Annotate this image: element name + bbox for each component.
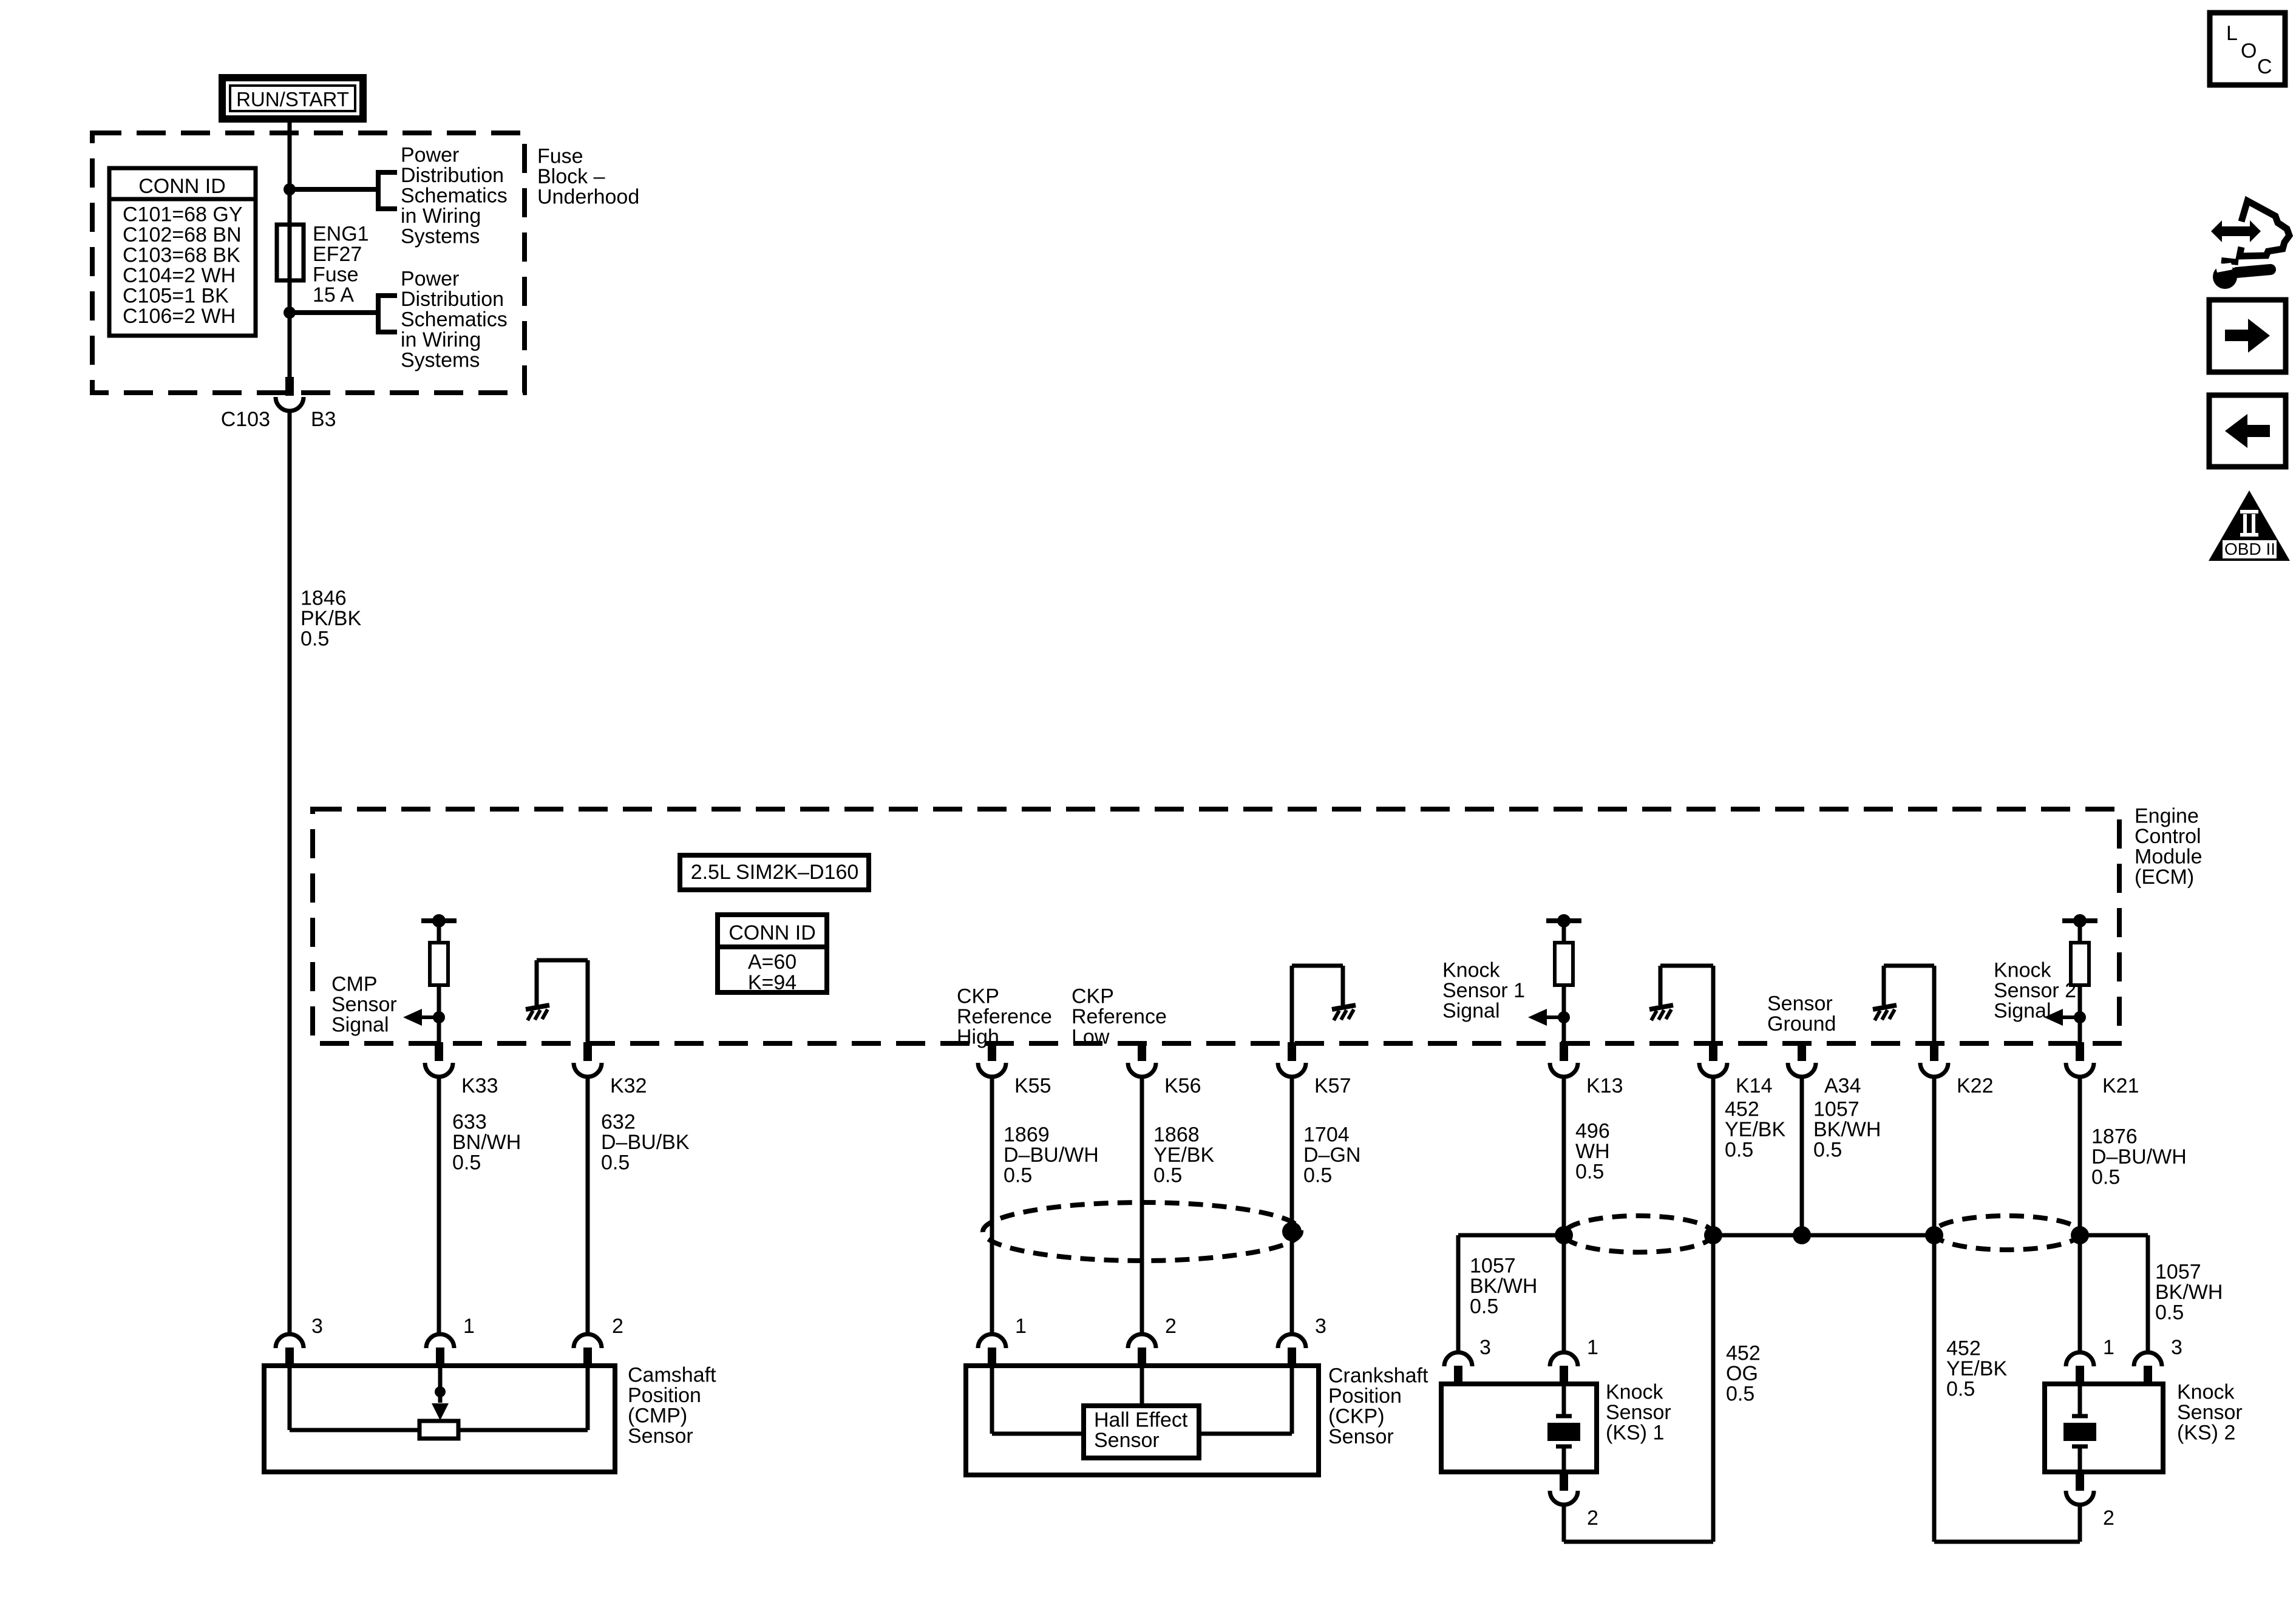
svg-text:Distribution: Distribution: [401, 164, 504, 187]
arrow CMP Sensor Signal: [403, 1009, 439, 1026]
wire 1057 BK/WH 0.5 branch to KS1 pin 3: [1458, 1235, 1564, 1351]
label K21: [2102, 1074, 2139, 1097]
svg-text:Power: Power: [401, 144, 459, 167]
svg-text:0.5: 0.5: [301, 628, 329, 651]
svg-text:K57: K57: [1314, 1074, 1351, 1097]
label pin 2 (CKP): [1165, 1315, 1177, 1338]
label 1057 BK/WH 0.5 (A34): [1813, 1098, 1881, 1162]
svg-text:Sensor: Sensor: [1767, 992, 1833, 1015]
label Fuse Block - Underhood: [537, 145, 639, 209]
ground (ECM internal, K57): [1332, 1005, 1356, 1020]
arrow Knock Sensor 1 Signal: [1528, 1009, 1564, 1026]
wire 452 YE/BK 0.5 (K22 upper): [1932, 1077, 1937, 1235]
svg-text:Sensor 2: Sensor 2: [1994, 979, 2076, 1002]
ground (ECM internal, K14): [1649, 1005, 1673, 1020]
svg-text:Sensor: Sensor: [331, 993, 397, 1016]
resistor pull-up (Knock sensor 1 signal, K13): [1546, 914, 1581, 1017]
icon OBD II triangle: [2209, 490, 2290, 561]
svg-text:EF27: EF27: [313, 243, 362, 266]
label 633 BN/WH 0.5: [452, 1111, 521, 1175]
label pin 1 (KS1): [1587, 1336, 1598, 1359]
svg-text:0.5: 0.5: [1470, 1295, 1498, 1318]
svg-text:(KS) 2: (KS) 2: [2177, 1422, 2235, 1445]
wire 1057 BK/WH 0.5 (A34): [1800, 1077, 1804, 1235]
wire 1869 D-BU/WH 0.5: [990, 1077, 994, 1334]
svg-text:ENG1: ENG1: [313, 223, 369, 246]
svg-text:Signal: Signal: [331, 1014, 389, 1037]
ground (ECM internal, K22): [1873, 1005, 1897, 1020]
label Engine Control Module (ECM): [2135, 805, 2203, 889]
wire K21 internal: [2078, 1017, 2082, 1043]
KS2 box: [2045, 1384, 2163, 1472]
label Knock Sensor (KS) 2: [2177, 1381, 2243, 1445]
label pin 1 (CMP): [463, 1315, 475, 1338]
svg-text:632: 632: [601, 1111, 636, 1134]
label pin 1 (KS2): [2103, 1336, 2114, 1359]
knock element KS2: [2063, 1384, 2096, 1472]
svg-text:C101=68 GY: C101=68 GY: [123, 203, 243, 226]
icon arrow left box: [2209, 395, 2286, 467]
svg-text:C: C: [2257, 55, 2272, 78]
svg-text:0.5: 0.5: [2091, 1166, 2120, 1189]
svg-text:K21: K21: [2102, 1074, 2139, 1097]
label K56: [1164, 1074, 1201, 1097]
label 496 WH 0.5: [1575, 1120, 1610, 1184]
wire K14 internal: [1660, 966, 1713, 1043]
svg-text:1: 1: [1587, 1336, 1598, 1359]
svg-text:0.5: 0.5: [1303, 1164, 1332, 1187]
label 1876 D-BU/WH 0.5: [2091, 1125, 2187, 1189]
pin 1 of KS1: [1550, 1352, 1578, 1385]
pin 2 of KS2: [2066, 1472, 2094, 1505]
svg-text:0.5: 0.5: [1726, 1383, 1754, 1406]
svg-text:Knock: Knock: [2177, 1381, 2235, 1404]
resistor pull-up (CMP sensor signal, K33): [421, 914, 457, 1017]
label pin 3 (KS2): [2171, 1336, 2182, 1359]
label pin 2 (KS1): [1587, 1507, 1598, 1530]
pin 2 of CKP sensor: [1128, 1334, 1156, 1366]
label Knock Sensor 1 Signal: [1442, 959, 1525, 1023]
pin K21: [2066, 1042, 2094, 1077]
svg-text:2: 2: [1165, 1315, 1177, 1338]
pin 3 of KS1: [1444, 1352, 1472, 1385]
svg-text:Fuse: Fuse: [313, 263, 359, 286]
label pin 3 (CMP): [311, 1315, 323, 1338]
wire K32 internal: [537, 960, 588, 1043]
svg-text:CKP: CKP: [957, 985, 999, 1008]
svg-text:Engine: Engine: [2135, 805, 2199, 828]
pin 1 of KS2: [2066, 1352, 2094, 1385]
svg-text:Sensor: Sensor: [1606, 1401, 1671, 1424]
KS1 box: [1441, 1384, 1597, 1472]
label A34: [1824, 1074, 1861, 1097]
svg-text:Sensor: Sensor: [1094, 1429, 1160, 1452]
wire 1846 PK/BK 0.5: [288, 411, 292, 1334]
svg-text:452: 452: [1725, 1098, 1759, 1121]
pin K32: [574, 1042, 602, 1077]
svg-text:A34: A34: [1824, 1074, 1861, 1097]
junction node lower branch: [284, 307, 296, 319]
svg-text:496: 496: [1575, 1120, 1610, 1143]
wire 1057 BK/WH 0.5 branch to KS2 pin 3: [2080, 1235, 2148, 1351]
label 1846 PK/BK 0.5: [301, 587, 361, 651]
svg-text:B3: B3: [311, 408, 336, 431]
svg-text:D–GN: D–GN: [1303, 1144, 1360, 1167]
svg-text:3: 3: [2171, 1336, 2182, 1359]
ECM dashed outline (Engine Control Module): [313, 809, 2119, 1043]
svg-text:0.5: 0.5: [1813, 1139, 1842, 1162]
table CONN ID (fuse block): [109, 168, 256, 336]
svg-text:Sensor 1: Sensor 1: [1442, 979, 1525, 1002]
knock element KS1: [1547, 1384, 1580, 1472]
svg-text:Sensor: Sensor: [628, 1425, 693, 1448]
label RUN/START (ignition voltage): [222, 78, 363, 119]
svg-text:(CKP): (CKP): [1328, 1405, 1385, 1428]
svg-text:Signal: Signal: [1994, 1000, 2051, 1023]
label C103: [221, 408, 270, 431]
pin 1 of CKP sensor: [978, 1334, 1006, 1366]
svg-text:3: 3: [311, 1315, 323, 1338]
fuse block dashed outline (Fuse Block - Underhood): [92, 133, 525, 393]
label B3: [311, 408, 336, 431]
svg-text:Systems: Systems: [401, 349, 480, 372]
pin A34: [1788, 1042, 1816, 1077]
svg-text:WH: WH: [1575, 1140, 1610, 1163]
svg-text:2: 2: [2103, 1507, 2114, 1530]
svg-text:2: 2: [1587, 1507, 1598, 1530]
CMP sensor box: [264, 1366, 615, 1472]
CKP internal wiring: [992, 1366, 1292, 1434]
junction node upper branch: [284, 183, 296, 195]
svg-text:1868: 1868: [1153, 1124, 1200, 1147]
svg-text:Crankshaft: Crankshaft: [1328, 1364, 1428, 1388]
svg-text:15 A: 15 A: [313, 283, 354, 307]
svg-text:0.5: 0.5: [1575, 1161, 1604, 1184]
svg-text:Underhood: Underhood: [537, 186, 639, 209]
svg-text:0.5: 0.5: [601, 1151, 630, 1175]
svg-text:O: O: [2241, 39, 2257, 63]
svg-text:0.5: 0.5: [1004, 1164, 1032, 1187]
label fuse ENG1 EF27 Fuse 15 A: [313, 223, 369, 307]
CKP sensor box: [966, 1366, 1319, 1475]
label Power Distribution Schematics in Wiring Systems (lower): [401, 268, 508, 372]
svg-text:(CMP): (CMP): [628, 1405, 687, 1428]
svg-text:CMP: CMP: [331, 973, 378, 996]
svg-text:Power: Power: [401, 268, 459, 291]
label K57: [1314, 1074, 1351, 1097]
node bus at A34: [1793, 1226, 1811, 1244]
label 2.5L SIM2K-D160: [680, 855, 869, 890]
svg-text:Block –: Block –: [537, 165, 605, 188]
label 1057 BK/WH 0.5 (KS2): [2155, 1261, 2223, 1324]
svg-text:0.5: 0.5: [2155, 1301, 2184, 1324]
svg-text:Sensor: Sensor: [2177, 1401, 2243, 1424]
svg-text:Control: Control: [2135, 825, 2201, 848]
svg-text:C102=68 BN: C102=68 BN: [123, 223, 242, 246]
twisted pair ellipse (knock sensor 1 wires): [1564, 1216, 1713, 1252]
svg-text:0.5: 0.5: [1725, 1139, 1753, 1162]
icon arrow right box: [2209, 300, 2286, 372]
svg-text:PK/BK: PK/BK: [301, 607, 361, 630]
pin K57: [1278, 1042, 1306, 1077]
svg-text:0.5: 0.5: [1946, 1378, 1975, 1401]
svg-text:Knock: Knock: [1994, 959, 2051, 982]
svg-text:Ground: Ground: [1767, 1012, 1836, 1036]
label 452 OG 0.5: [1726, 1342, 1761, 1406]
svg-text:K55: K55: [1014, 1074, 1051, 1097]
svg-text:1: 1: [2103, 1336, 2114, 1359]
label pin 3 (CKP): [1315, 1315, 1326, 1338]
pin K22: [1920, 1042, 1948, 1077]
wire K57 internal: [1292, 966, 1343, 1043]
pin K56: [1128, 1042, 1156, 1077]
pin 3 of KS2: [2134, 1352, 2162, 1385]
svg-text:2.5L SIM2K–D160: 2.5L SIM2K–D160: [691, 861, 859, 884]
wire K22 down to KS2 pin 2 loop: [1934, 1235, 2080, 1542]
svg-text:K14: K14: [1736, 1074, 1773, 1097]
svg-text:D–BU/BK: D–BU/BK: [601, 1131, 690, 1154]
branch symbol 2 (to Power Distribution Schematics): [378, 293, 397, 334]
pin K14: [1699, 1042, 1727, 1077]
svg-text:C103: C103: [221, 408, 270, 431]
label CMP Sensor Signal: [331, 973, 397, 1037]
svg-text:Position: Position: [1328, 1385, 1402, 1408]
label K14: [1736, 1074, 1773, 1097]
svg-text:1876: 1876: [2091, 1125, 2138, 1148]
wire K22 internal: [1884, 966, 1934, 1043]
svg-text:RUN/START: RUN/START: [236, 88, 349, 110]
svg-text:OBD II: OBD II: [2224, 540, 2275, 558]
svg-text:K32: K32: [610, 1074, 647, 1097]
svg-text:1: 1: [463, 1315, 475, 1338]
svg-text:Schematics: Schematics: [401, 308, 508, 331]
svg-text:L: L: [2226, 22, 2238, 45]
svg-text:CONN ID: CONN ID: [138, 175, 226, 198]
svg-text:C104=2 WH: C104=2 WH: [123, 264, 236, 287]
node bus at K13: [1555, 1226, 1573, 1244]
svg-text:K13: K13: [1586, 1074, 1623, 1097]
svg-text:Position: Position: [628, 1384, 701, 1407]
wire branch 1: [290, 187, 378, 192]
label Knock Sensor (KS) 1: [1606, 1381, 1671, 1445]
wire branch 2: [290, 310, 378, 315]
wire K13 to KS1 pin 1: [1562, 1235, 1566, 1351]
svg-text:in Wiring: in Wiring: [401, 205, 481, 228]
label Knock Sensor 2 Signal: [1994, 959, 2076, 1023]
svg-text:1846: 1846: [301, 587, 347, 610]
twisted pair ellipse (knock sensor 2 wires): [1934, 1216, 2080, 1250]
svg-text:Sensor: Sensor: [1328, 1425, 1394, 1448]
svg-text:452: 452: [1946, 1337, 1981, 1360]
ground (ECM internal, K32): [526, 1005, 549, 1020]
label Camshaft Position (CMP) Sensor: [628, 1364, 716, 1448]
svg-text:Module: Module: [2135, 846, 2203, 869]
svg-text:1057: 1057: [1470, 1255, 1516, 1278]
svg-text:3: 3: [1479, 1336, 1491, 1359]
svg-text:K33: K33: [461, 1074, 498, 1097]
svg-text:Fuse: Fuse: [537, 145, 583, 168]
svg-text:A=60: A=60: [748, 951, 796, 974]
svg-text:(KS) 1: (KS) 1: [1606, 1422, 1664, 1445]
svg-text:CKP: CKP: [1072, 985, 1114, 1008]
label pin 1 (CKP): [1015, 1315, 1027, 1338]
svg-text:K=94: K=94: [748, 971, 796, 994]
svg-text:CONN ID: CONN ID: [729, 921, 816, 944]
wire RUN/START to fuse block: [288, 121, 292, 378]
svg-text:0.5: 0.5: [452, 1151, 481, 1175]
svg-text:in Wiring: in Wiring: [401, 328, 481, 351]
svg-text:1704: 1704: [1303, 1124, 1350, 1147]
svg-text:(ECM): (ECM): [2135, 866, 2194, 889]
label CKP Reference High: [957, 985, 1052, 1049]
svg-text:Distribution: Distribution: [401, 288, 504, 311]
wire 452 YE/BK 0.5 (K14): [1711, 1077, 1716, 1235]
svg-text:452: 452: [1726, 1342, 1761, 1365]
label Sensor Ground: [1767, 992, 1836, 1036]
twisted pair shield ellipse (CKP wires): [983, 1202, 1301, 1261]
node bus at K14: [1704, 1226, 1722, 1244]
svg-text:1057: 1057: [1813, 1098, 1860, 1121]
svg-text:BK/WH: BK/WH: [1470, 1275, 1537, 1298]
svg-text:Hall Effect: Hall Effect: [1094, 1409, 1188, 1432]
svg-text:Reference: Reference: [957, 1005, 1052, 1028]
arrow Knock Sensor 2 Signal: [2044, 1009, 2080, 1026]
wire sensor ground bus: [1713, 1233, 1934, 1238]
svg-text:K56: K56: [1164, 1074, 1201, 1097]
pin 2 of KS1: [1550, 1472, 1578, 1505]
svg-text:Systems: Systems: [401, 225, 480, 248]
svg-text:OG: OG: [1726, 1362, 1758, 1385]
icon LOC box: [2210, 13, 2285, 85]
label 452 YE/BK 0.5 (K14): [1725, 1098, 1785, 1162]
label 1704 D-GN 0.5: [1303, 1124, 1360, 1187]
svg-text:Camshaft: Camshaft: [628, 1364, 716, 1387]
label 452 YE/BK 0.5 (K22 lower): [1946, 1337, 2007, 1401]
label K32: [610, 1074, 647, 1097]
pin 1 of CMP sensor: [426, 1334, 454, 1366]
svg-text:Schematics: Schematics: [401, 185, 508, 208]
wire K13 internal: [1562, 1017, 1566, 1043]
svg-text:YE/BK: YE/BK: [1946, 1357, 2007, 1380]
icon diagnostic (arrows and wrench): [2211, 201, 2289, 289]
label CKP Reference Low: [1072, 985, 1167, 1049]
svg-text:Signal: Signal: [1442, 1000, 1500, 1023]
label K22: [1957, 1074, 1994, 1097]
pin 3 of CKP sensor: [1278, 1334, 1306, 1366]
svg-text:1057: 1057: [2155, 1261, 2201, 1284]
label pin 3 (KS1): [1479, 1336, 1491, 1359]
wire 632 D-BU/BK 0.5: [586, 1077, 590, 1334]
pin K13: [1550, 1042, 1578, 1077]
pin 2 of CMP sensor: [574, 1334, 602, 1366]
wire K21 to KS2 pin 1: [2078, 1235, 2082, 1351]
label pin 2 (KS2): [2103, 1507, 2114, 1530]
label 1869 D-BU/WH 0.5: [1004, 1124, 1099, 1187]
svg-text:C103=68 BK: C103=68 BK: [123, 244, 240, 267]
node knock 1 signal junction: [1558, 1011, 1570, 1023]
svg-text:633: 633: [452, 1111, 487, 1134]
CMP internal wiring and element: [290, 1366, 588, 1439]
svg-text:Knock: Knock: [1442, 959, 1500, 982]
label Power Distribution Schematics in Wiring Systems (upper): [401, 144, 508, 248]
svg-text:1: 1: [1015, 1315, 1027, 1338]
svg-text:Reference: Reference: [1072, 1005, 1167, 1028]
svg-text:YE/BK: YE/BK: [1725, 1118, 1785, 1141]
label 1057 BK/WH 0.5 (KS1): [1470, 1255, 1537, 1318]
svg-text:Low: Low: [1072, 1026, 1110, 1049]
svg-text:K22: K22: [1957, 1074, 1994, 1097]
connector C103 terminal B3: [276, 377, 304, 411]
node knock 2 signal junction: [2074, 1011, 2086, 1023]
label Crankshaft Position (CKP) Sensor: [1328, 1364, 1428, 1449]
wire K14 down to KS1 pin 2 loop: [1564, 1235, 1713, 1542]
pin 3 of CMP sensor: [276, 1334, 304, 1366]
fuse ENG1 EF27 15 A: [277, 225, 304, 280]
svg-text:BN/WH: BN/WH: [452, 1131, 521, 1154]
svg-text:2: 2: [612, 1315, 623, 1338]
svg-text:0.5: 0.5: [1153, 1164, 1182, 1187]
node bus at K21: [2071, 1226, 2089, 1244]
label K13: [1586, 1074, 1623, 1097]
wire 496 WH 0.5: [1562, 1077, 1566, 1235]
svg-text:1869: 1869: [1004, 1124, 1050, 1147]
svg-text:Knock: Knock: [1606, 1381, 1663, 1404]
svg-text:D–BU/WH: D–BU/WH: [2091, 1145, 2187, 1168]
wire KS1 pin 2 down: [1562, 1505, 1566, 1542]
wire KS2 pin 2 down: [2078, 1505, 2082, 1542]
svg-text:BK/WH: BK/WH: [1813, 1118, 1881, 1141]
svg-text:C106=2 WH: C106=2 WH: [123, 305, 236, 328]
pin K33: [425, 1042, 453, 1077]
node bus at K22: [1925, 1226, 1943, 1244]
wire K33 internal: [437, 1017, 441, 1043]
label K55: [1014, 1074, 1051, 1097]
Hall Effect Sensor box: [1084, 1406, 1199, 1458]
label K33: [461, 1074, 498, 1097]
resistor pull-up (Knock sensor 2 signal, K21): [2062, 914, 2097, 1017]
pin K55: [978, 1042, 1006, 1077]
svg-text:C105=1 BK: C105=1 BK: [123, 285, 229, 308]
wire 1704 D-GN 0.5: [1290, 1077, 1294, 1334]
wire 1876 D-BU/WH 0.5: [2078, 1077, 2082, 1235]
wire 1868 YE/BK 0.5: [1140, 1077, 1144, 1334]
node shield to K57 wire: [1282, 1222, 1302, 1241]
svg-text:3: 3: [1315, 1315, 1326, 1338]
branch symbol 1 (to Power Distribution Schematics): [378, 170, 397, 211]
wire 633 BN/WH 0.5: [437, 1077, 441, 1334]
table CONN ID (ECM): [718, 915, 827, 994]
label 1868 YE/BK 0.5: [1153, 1124, 1214, 1187]
svg-text:YE/BK: YE/BK: [1153, 1144, 1214, 1167]
label 632 D-BU/BK 0.5: [601, 1111, 690, 1175]
node CMP signal junction: [433, 1011, 445, 1023]
svg-text:BK/WH: BK/WH: [2155, 1281, 2223, 1304]
svg-text:D–BU/WH: D–BU/WH: [1004, 1144, 1099, 1167]
label pin 2 (CMP): [612, 1315, 623, 1338]
